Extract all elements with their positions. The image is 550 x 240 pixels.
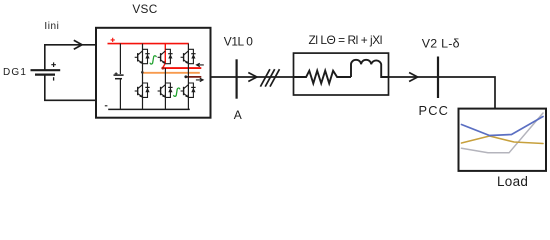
svg-text:Zl LΘ = Rl + jXl: Zl LΘ = Rl + jXl [309,33,382,47]
svg-text:V2 L-δ: V2 L-δ [422,37,460,51]
svg-text:V1L 0: V1L 0 [224,34,253,48]
svg-text:Iini: Iini [44,21,59,32]
svg-text:VSC: VSC [132,2,157,16]
svg-text:DG1: DG1 [3,67,27,78]
svg-text:A: A [234,108,242,122]
svg-text:PCC: PCC [419,103,450,118]
svg-text:Load: Load [497,174,528,189]
